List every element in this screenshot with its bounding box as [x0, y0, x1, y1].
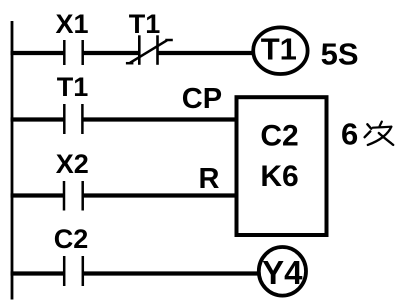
svg-text:T1: T1: [129, 9, 161, 39]
svg-text:C2: C2: [260, 119, 298, 152]
wire T1 contact to counter CP input: [82, 117, 236, 121]
svg-text:T1: T1: [57, 72, 89, 102]
value CJK ci (times) glyph: [365, 122, 394, 145]
svg-text:X1: X1: [56, 9, 89, 39]
timed NC contact T1: [126, 35, 173, 65]
contact T1 (rung2): [64, 104, 82, 134]
wire rung3 rail to X2 contact: [11, 193, 65, 197]
left power rail: [11, 21, 14, 300]
contact C2: [64, 256, 83, 286]
svg-text:Y4: Y4: [262, 254, 303, 291]
svg-text:CP: CP: [182, 83, 222, 115]
wire C2 contact to output coil Y4: [83, 271, 259, 275]
output coil Y4: [259, 247, 306, 296]
svg-text:R: R: [199, 163, 220, 195]
wire X2 contact to counter R input: [83, 193, 237, 197]
contact X1: [64, 40, 82, 65]
svg-text:6: 6: [341, 117, 358, 152]
svg-text:5S: 5S: [321, 36, 359, 71]
wire rung1 rail to X1: [11, 51, 65, 55]
svg-text:K6: K6: [260, 160, 298, 193]
wire rung2 rail to T1 contact: [11, 117, 65, 121]
svg-text:X2: X2: [56, 149, 89, 179]
svg-text:C2: C2: [54, 224, 89, 254]
svg-text:T1: T1: [261, 32, 297, 67]
counter C2 box: [237, 97, 327, 235]
wire X1 to T1 contact: [83, 51, 140, 55]
timer coil T1: [253, 27, 307, 74]
wire rung4 rail to C2 contact: [11, 271, 65, 275]
contact X2: [64, 181, 83, 211]
wire T1 contact to timer coil: [158, 51, 255, 55]
